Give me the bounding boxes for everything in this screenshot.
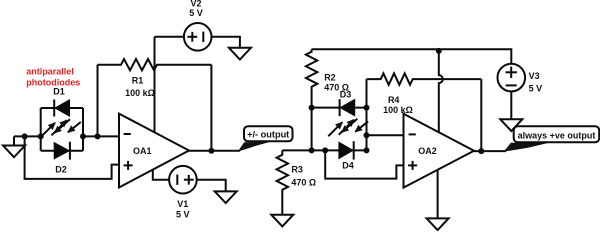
wire: OA2 noninverting input path bbox=[325, 150, 403, 178]
svg-text:D4: D4 bbox=[342, 161, 354, 171]
wire: R3 top to right box bbox=[282, 149, 311, 151]
node: D3/R4 junction bbox=[364, 105, 370, 111]
OA2 minus sign bbox=[409, 133, 416, 135]
svg-text:V1: V1 bbox=[177, 199, 188, 209]
light arrows for D1 bbox=[41, 120, 67, 137]
svg-text:470 Ω: 470 Ω bbox=[291, 177, 316, 187]
diode D1 branch wire bbox=[41, 107, 83, 109]
main row wire through D4 bbox=[312, 149, 367, 151]
node: inverting tap bbox=[364, 132, 370, 138]
svg-text:R4: R4 bbox=[388, 95, 400, 105]
svg-text:R2: R2 bbox=[324, 73, 336, 83]
svg-text:R3: R3 bbox=[291, 165, 303, 175]
op-amp OA2 bbox=[404, 114, 475, 188]
wire: OA1 V- pin down to V1 bbox=[153, 170, 169, 180]
svg-text:OA1: OA1 bbox=[133, 146, 152, 156]
node: OA2 output junction bbox=[478, 148, 484, 154]
wire: feedback vertical from inverting input node bbox=[97, 65, 99, 137]
node: R2/D3 junction bbox=[309, 105, 315, 111]
photodiode D3 bbox=[340, 99, 355, 116]
light arrows for D2 bbox=[55, 119, 81, 133]
wire: OA2 inverting input bbox=[367, 134, 404, 136]
wire: left ground stub to photodiode box bbox=[14, 135, 41, 137]
light arrows for D3 bbox=[328, 120, 354, 137]
photodiode box left vertical wire bbox=[40, 108, 42, 151]
svg-text:5 V: 5 V bbox=[176, 209, 190, 219]
svg-text:5 V: 5 V bbox=[529, 83, 543, 93]
photodiode D1 bbox=[54, 100, 69, 117]
wire: OA2 V- to ground bbox=[437, 170, 439, 219]
svg-text:D3: D3 bbox=[340, 90, 352, 100]
wire: V1 right lead to ground bbox=[196, 180, 226, 192]
resistor R3 470 ohm bbox=[277, 150, 288, 214]
node: box right mid bbox=[80, 133, 86, 139]
wire: OA1 V+ pin up to V2 bbox=[154, 37, 156, 133]
node: OA1 output junction bbox=[208, 148, 214, 154]
ground (R3) bbox=[271, 215, 293, 227]
wire: V2 right lead to ground bbox=[211, 37, 240, 48]
op-amp OA1 bbox=[119, 114, 189, 188]
svg-text:OA2: OA2 bbox=[418, 146, 437, 156]
photodiode D2 bbox=[55, 142, 70, 160]
ground (OA2) bbox=[427, 218, 449, 230]
ground (V3) bbox=[500, 119, 522, 131]
node: box right bottom bbox=[364, 147, 370, 153]
wire: OA1 output bbox=[188, 150, 240, 152]
photodiode D4 bbox=[339, 141, 353, 159]
wire: right box right vertical bbox=[366, 79, 368, 150]
node: R3 row left bbox=[309, 147, 315, 153]
svg-text:always +ve output: always +ve output bbox=[518, 130, 596, 140]
node: rail V+ tap bbox=[436, 48, 442, 54]
svg-text:5 V: 5 V bbox=[189, 8, 203, 18]
OA2 plus sign bbox=[408, 161, 417, 170]
wire: V3 bottom to ground bbox=[510, 91, 512, 120]
wire: feedback down to output bbox=[210, 65, 212, 151]
wire: V2 left lead bbox=[155, 36, 185, 38]
svg-text:V3: V3 bbox=[529, 71, 540, 81]
ground (V1) bbox=[215, 191, 237, 203]
voltage source V3 bbox=[498, 64, 526, 92]
node: ground junction left bbox=[22, 133, 28, 139]
diode D3 branch wire bbox=[312, 107, 367, 109]
top rail wire to V3 bbox=[312, 49, 512, 64]
node: noninverting tap bbox=[322, 147, 328, 153]
svg-text:antiparallel: antiparallel bbox=[26, 67, 74, 77]
svg-text:R1: R1 bbox=[132, 76, 144, 86]
node: feedback tap bbox=[95, 133, 101, 139]
svg-text:+/- output: +/- output bbox=[247, 129, 289, 139]
svg-text:D1: D1 bbox=[53, 87, 65, 97]
resistor R1 100k feedback bbox=[98, 59, 212, 70]
label: antiparallel photodiodes (red) bbox=[26, 67, 80, 88]
resistor R4 100k feedback bbox=[367, 73, 482, 84]
resistor R2 470 ohm bbox=[306, 49, 317, 150]
wire: OA2 output bbox=[473, 150, 506, 152]
wire: box right to OA1 inverting input bbox=[83, 135, 119, 137]
wire: bottom path from node to OA1 + input bbox=[25, 136, 119, 179]
ground (V2) bbox=[229, 48, 251, 60]
svg-text:D2: D2 bbox=[55, 165, 67, 175]
voltage source V2 bbox=[184, 23, 212, 51]
light arrows for D4 bbox=[342, 119, 368, 133]
OA1 plus sign bbox=[124, 161, 133, 170]
voltage source V1 bbox=[169, 166, 197, 194]
net flag always +ve output bbox=[504, 126, 600, 152]
diode D2 branch wire bbox=[41, 150, 83, 152]
OA1 minus sign bbox=[124, 133, 131, 135]
node: box left mid bbox=[38, 133, 44, 139]
wire: OA2 V+ from rail with hop over feedback bbox=[439, 51, 443, 132]
svg-text:100 kΩ: 100 kΩ bbox=[125, 88, 155, 98]
photodiode box right vertical wire bbox=[82, 108, 84, 151]
ground (left, input common) bbox=[3, 136, 25, 157]
svg-text:100 kΩ: 100 kΩ bbox=[383, 105, 413, 115]
wire: R4 feedback down to OA2 output bbox=[480, 79, 482, 151]
net flag +/- output bbox=[238, 126, 293, 152]
